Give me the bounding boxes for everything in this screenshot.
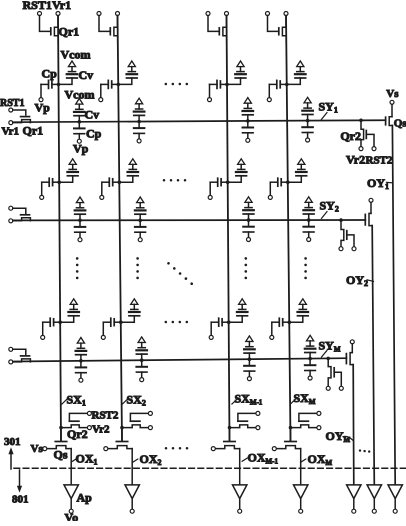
wire row line SY3 — [14, 358, 346, 361]
svg-text:Vp: Vp — [73, 142, 89, 156]
terminal Vp row1 pair — [77, 139, 81, 143]
svg-text:OY2: OY2 — [346, 273, 368, 288]
capacitor Cp cell col1 rowA — [41, 83, 48, 85]
svg-text:SX1: SX1 — [67, 393, 86, 408]
op-amp Ap col2 — [125, 485, 139, 499]
ellipsis col2 vertical — [136, 257, 139, 260]
svg-text:OX2: OX2 — [140, 452, 162, 467]
terminal Vs row2 — [369, 198, 373, 202]
transistor select row3 — [351, 344, 353, 353]
ellipsis rowB — [163, 179, 166, 182]
terminal Vs row3 — [350, 340, 354, 344]
capacitor Cp cell col2 rowC — [103, 321, 110, 323]
capacitor Cp cell col4 rowC — [272, 321, 279, 323]
wire gate reset row2 — [347, 235, 354, 247]
svg-text:RST2: RST2 — [366, 155, 393, 167]
capacitor Cv with Vcom arrow on row1 after col1 — [76, 99, 83, 105]
ellipsis diagonal — [167, 262, 170, 265]
capacitor Cv with Vcom arrow cell col3 rowB — [228, 176, 242, 182]
svg-text:Qs: Qs — [54, 448, 68, 462]
terminal Vp row2 pair — [78, 238, 82, 242]
capacitor Cv with Vcom arrow cell col1 rowC — [60, 316, 73, 322]
terminal Vr top col2 — [116, 12, 120, 16]
terminal Vs bottom col3 — [211, 447, 215, 451]
svg-text:Vs: Vs — [386, 88, 399, 100]
pointer OY1 — [387, 181, 393, 184]
node: row3 reset junction — [326, 357, 330, 361]
wire + terminal Vp cell col3 rowB — [209, 182, 211, 195]
wire column line 4 — [286, 14, 291, 442]
transistor left select row2 sel2 — [13, 208, 26, 213]
node: junction row1 pair — [306, 119, 310, 123]
ellipsis rowC — [165, 321, 168, 324]
wire row line SY2 — [13, 219, 365, 221]
transistor left select row3 sel3 — [13, 349, 26, 354]
terminal RST2 row1 — [372, 147, 376, 151]
transistor Qr1-col3 top col3 — [208, 16, 219, 32]
node: junction row1 pair — [137, 120, 141, 124]
capacitor Cp below row2 — [308, 220, 310, 227]
terminal gate left row3 sel3 — [9, 347, 13, 351]
capacitor Cv with Vcom arrow cell col4 rowA — [287, 78, 301, 84]
node: junction row3 pair — [79, 359, 83, 363]
terminal RST gate top col4 — [266, 12, 270, 16]
capacitor Cv with Vcom arrow on row1 after col2 — [136, 98, 143, 104]
svg-text:Qr2: Qr2 — [340, 129, 361, 143]
capacitor Cp cell col3 rowC — [211, 321, 218, 323]
svg-text:Cp: Cp — [86, 127, 102, 141]
svg-text:SXM-1: SXM-1 — [235, 392, 263, 407]
capacitor Cp below row1 — [247, 121, 249, 128]
node: cell junction col2 rowA — [117, 83, 121, 87]
op-amp Ap col4 — [294, 485, 308, 499]
svg-text:Qs: Qs — [394, 118, 406, 130]
terminal Vs bottom col1 — [43, 447, 47, 451]
node: cell junction col3 rowB — [226, 180, 230, 184]
capacitor Cp below row3 — [309, 359, 311, 366]
terminal source left row1 — [9, 121, 13, 125]
wire + terminal Vp cell col2 rowA — [100, 84, 102, 97]
capacitor Cv with Vcom arrow on row3 after col3 — [246, 336, 253, 342]
wire OY1 vertical — [392, 126, 395, 485]
terminal Vr2 row1 — [359, 147, 363, 151]
svg-text:Cv: Cv — [79, 68, 94, 82]
node: cell junction col1 rowA — [57, 83, 61, 87]
svg-text:OXM: OXM — [308, 452, 333, 467]
wire + terminal Vp cell col3 rowA — [209, 84, 211, 97]
wire + terminal Vp cell col2 rowB — [101, 182, 103, 195]
capacitor Cp cell col1 rowB — [42, 181, 49, 183]
node: cell junction col1 rowC — [58, 320, 62, 324]
svg-text:Vp: Vp — [35, 101, 51, 115]
capacitor Cv with Vcom arrow on row2 after col2 — [137, 197, 144, 203]
wire OY2 vertical — [372, 226, 374, 485]
wire column line 1 — [58, 14, 61, 442]
pointer SX1 — [62, 399, 67, 404]
op-amp Ap col1 — [64, 485, 78, 499]
ellipsis col3 vertical — [245, 257, 248, 260]
wire + terminal Vp cell col4 rowA — [268, 84, 270, 97]
svg-text:Vr1: Vr1 — [2, 126, 20, 138]
transistor Qs bottom col2 — [121, 428, 123, 441]
terminal RST2 bottom col1 — [87, 411, 91, 415]
terminal Vr2 bottom col4 — [317, 426, 321, 430]
terminal Vp row3 pair — [79, 378, 83, 382]
terminal Vp row2 pair — [247, 238, 251, 242]
transistor left select row1 Qr1 — [13, 110, 26, 115]
terminal Vs bottom col4 — [272, 447, 276, 451]
wire gate Qr2 row1 — [366, 134, 374, 146]
terminal Vs row1 — [390, 100, 394, 104]
svg-text:RST1: RST1 — [0, 98, 24, 109]
terminal Vp row1 pair — [306, 138, 310, 142]
terminal RST gate top col3 — [206, 12, 210, 16]
terminal Vp row3 pair — [247, 377, 251, 381]
wire OX output col3 — [239, 449, 241, 485]
transistor select row2 — [370, 202, 372, 213]
terminal Vr2 bottom col1 — [87, 426, 91, 430]
capacitor Cp below row3 — [141, 360, 143, 367]
capacitor Cv with Vcom arrow cell col1 rowA — [59, 78, 73, 84]
pointer OYM — [343, 436, 353, 440]
terminal Vr top col3 — [225, 12, 229, 16]
ellipsis col4 vertical — [304, 257, 307, 260]
node: junction row3 pair — [308, 357, 312, 361]
transistor reset row3 — [328, 358, 331, 386]
svg-text:SYM: SYM — [319, 338, 341, 353]
ellipsis OY outputs — [359, 449, 361, 451]
node: cell junction col4 rowC — [288, 320, 292, 324]
node: cell junction col2 rowB — [118, 180, 122, 184]
node: bottom junction col2 — [120, 426, 124, 430]
capacitor Cv with Vcom arrow on row2 after col3 — [245, 197, 252, 203]
transistor reset row2 — [341, 220, 344, 247]
wire dashed boundary 301/801 — [14, 467, 406, 469]
capacitor Cp below row1 — [78, 122, 80, 129]
wire column line 3 — [227, 14, 230, 442]
wire + terminal Vp cell col3 rowC — [210, 322, 212, 335]
capacitor Cv with Vcom arrow cell col4 rowC — [289, 316, 303, 322]
terminal gate left row1 Qr1 — [9, 108, 13, 112]
svg-text:Vo: Vo — [65, 510, 79, 521]
capacitor Cp below row2 — [248, 220, 250, 227]
svg-text:OXM-1: OXM-1 — [248, 451, 279, 466]
terminal RST2 bottom col2 — [148, 411, 152, 415]
svg-text:Vcom: Vcom — [61, 47, 91, 61]
transistor Qr2 bottom col3 — [230, 425, 256, 428]
op-amp OYM output — [347, 485, 361, 499]
capacitor Cv with Vcom arrow on row2 after col1 — [76, 197, 83, 203]
capacitor Cp below row2 — [139, 220, 141, 227]
svg-text:Vcom: Vcom — [65, 87, 95, 101]
svg-text:SXM: SXM — [294, 391, 316, 406]
transistor Qr1 top col1 — [40, 16, 51, 32]
801 arrow — [19, 470, 21, 486]
transistor Qr2 bottom col1 — [61, 425, 87, 428]
ellipsis bottom Qs row — [165, 447, 168, 450]
capacitor Cv with Vcom arrow on row2 after col4 — [305, 197, 312, 203]
wire + terminal Vp cell col1 rowA — [40, 84, 42, 97]
pointer SY2 — [322, 212, 328, 219]
terminal Vp row2 pair — [138, 238, 142, 242]
terminal Vr top col4 — [284, 12, 288, 16]
capacitor Cp below row3 — [80, 361, 82, 368]
node: junction row2 pair — [138, 219, 142, 223]
transistor Qr1-col4 top col4 — [268, 16, 279, 32]
capacitor Cp cell col3 rowA — [210, 83, 217, 85]
op-amp Ap col3 — [233, 485, 247, 499]
wire row line SY1 — [13, 120, 386, 122]
svg-text:Vr1: Vr1 — [52, 0, 71, 12]
wire + terminal Vp cell col2 rowC — [102, 322, 104, 335]
wire column line 2 — [118, 14, 123, 442]
wire + terminal Vp cell col4 rowC — [271, 322, 273, 335]
terminal Vs bottom col2 — [104, 447, 108, 451]
capacitor Cp below row3 — [248, 359, 250, 366]
svg-text:RST1: RST1 — [23, 0, 52, 12]
capacitor Cp below row2 — [79, 220, 81, 227]
capacitor Cp below row1 — [307, 121, 309, 128]
capacitor Cv with Vcom arrow on row3 after col1 — [77, 338, 84, 344]
capacitor Cv with Vcom arrow cell col2 rowB — [119, 176, 133, 182]
pointer SY1 — [322, 113, 328, 120]
terminal RST gate top col1 — [38, 12, 42, 16]
wire OYM vertical — [352, 365, 355, 485]
transistor Qs bottom col3 — [229, 428, 231, 441]
svg-text:Qr2: Qr2 — [67, 427, 88, 441]
capacitor Cp cell col4 rowA — [269, 83, 276, 85]
pointer SXM-1 — [232, 399, 237, 404]
wire OX output col1 — [70, 449, 72, 485]
svg-text:SY2: SY2 — [320, 199, 339, 214]
node: cell junction col3 rowA — [225, 83, 229, 87]
node: bottom junction col4 — [289, 426, 293, 430]
svg-text:801: 801 — [12, 494, 29, 506]
node: junction row2 pair — [307, 218, 311, 222]
terminal source left row2 — [9, 219, 13, 223]
capacitor Cv with Vcom arrow cell col3 rowA — [227, 78, 241, 84]
terminal RST2 row3 — [339, 386, 343, 390]
transistor Qs bottom col1 — [60, 428, 62, 441]
pointer OX1 — [72, 459, 77, 462]
transistor Qs bottom col4 — [290, 428, 292, 441]
terminal Vr top col1 — [56, 12, 60, 16]
terminal Vp row3 pair — [308, 376, 312, 380]
svg-text:Vs: Vs — [31, 443, 44, 455]
wire OX output col4 — [300, 449, 302, 485]
ellipsis rowA — [165, 83, 168, 86]
capacitor Cp cell col4 rowB — [270, 181, 277, 183]
transistor Qs row1 — [391, 104, 393, 116]
svg-text:301: 301 — [4, 436, 21, 448]
capacitor Cv with Vcom arrow on row1 after col4 — [304, 97, 311, 103]
node: junction row3 pair — [140, 358, 144, 362]
transistor Qr2 row1 — [361, 120, 364, 146]
node: row1 Qr2 junction — [359, 119, 363, 123]
pointer OXM-1 — [242, 458, 247, 461]
capacitor Cv with Vcom arrow cell col2 rowA — [118, 78, 132, 84]
capacitor Cv with Vcom arrow on row3 after col4 — [307, 335, 314, 341]
node: cell junction col2 rowC — [119, 320, 123, 324]
transistor Qr1-col2 top col2 — [99, 16, 110, 32]
terminal Vr2 row2 — [339, 247, 343, 251]
terminal RST2 row2 — [352, 247, 356, 251]
terminal Vr2 bottom col2 — [148, 426, 152, 430]
node: cell junction col4 rowA — [285, 83, 289, 87]
capacitor Cv with Vcom arrow cell col1 rowB — [59, 176, 72, 182]
pointer SYM — [322, 350, 328, 357]
node: cell junction col3 rowC — [227, 320, 231, 324]
svg-text:Vr2: Vr2 — [346, 153, 365, 167]
pointer OX2 — [133, 459, 138, 462]
op-amp OY1 output — [388, 485, 402, 499]
terminal Vr2 bottom col3 — [256, 426, 260, 430]
wire + terminal Vp cell col1 rowC — [42, 322, 44, 335]
terminal Vp row2 pair — [307, 238, 311, 242]
svg-text:OX1: OX1 — [76, 452, 98, 467]
capacitor Cv with Vcom arrow cell col3 rowC — [229, 316, 243, 322]
capacitor Cp cell col2 rowA — [101, 83, 108, 85]
terminal Vr2 row3 — [326, 386, 330, 390]
node: junction row3 pair — [248, 357, 252, 361]
capacitor Cp below row1 — [138, 122, 140, 129]
node: junction row1 pair — [246, 119, 250, 123]
wire OX output col2 — [131, 449, 133, 485]
terminal Vp row3 pair — [140, 378, 144, 382]
wire + terminal Vp cell col1 rowB — [41, 182, 43, 195]
capacitor Cv with Vcom arrow on row1 after col3 — [244, 98, 251, 104]
pointer SXM — [290, 399, 295, 404]
wire gate reset row3 — [334, 372, 341, 386]
node: bottom junction col1 — [59, 426, 63, 430]
op-amp OY2 output — [367, 485, 381, 499]
capacitor Cp cell col3 rowB — [210, 181, 217, 183]
node: row2 reset junction — [339, 218, 343, 222]
terminal RST2 bottom col4 — [317, 411, 321, 415]
pointer OY2 — [367, 280, 374, 282]
wire + terminal Vp cell col4 rowB — [269, 182, 271, 195]
svg-text:Qr1: Qr1 — [23, 124, 44, 138]
terminal Vp row1 pair — [137, 139, 141, 143]
svg-text:RST2: RST2 — [92, 410, 119, 422]
svg-text:Cp: Cp — [42, 67, 58, 81]
node: bottom junction col3 — [228, 426, 232, 430]
capacitor Cv with Vcom arrow cell col2 rowC — [121, 316, 135, 322]
ellipsis col1 vertical — [76, 257, 79, 260]
svg-text:Qr1: Qr1 — [59, 25, 80, 39]
capacitor Cp cell col2 rowB — [102, 181, 109, 183]
pointer SX2 — [122, 399, 127, 404]
svg-text:OYM: OYM — [326, 429, 351, 444]
node: cell junction col4 rowB — [286, 180, 290, 184]
301 arrow — [8, 447, 13, 454]
svg-text:SY1: SY1 — [319, 100, 338, 115]
terminal gate left row2 sel2 — [9, 206, 13, 210]
node: cell junction col1 rowB — [57, 180, 61, 184]
node: junction row2 pair — [247, 218, 251, 222]
transistor Qr2 bottom col4 — [291, 425, 317, 428]
svg-text:OY1: OY1 — [367, 176, 389, 191]
pointer OXM — [301, 459, 306, 462]
node: junction row1 pair — [78, 120, 82, 124]
terminal RST gate top col2 — [97, 12, 101, 16]
transistor Qr2 bottom col2 — [122, 425, 148, 428]
svg-text:Vr2: Vr2 — [92, 424, 110, 436]
terminal Vp row1 pair — [246, 138, 250, 142]
terminal RST2 bottom col3 — [256, 411, 260, 415]
terminal source left row3 — [9, 360, 13, 364]
svg-text:Cv: Cv — [85, 107, 100, 121]
capacitor Cv with Vcom arrow cell col4 rowB — [288, 176, 302, 182]
capacitor Cp cell col1 rowC — [43, 321, 50, 323]
capacitor Cv with Vcom arrow on row3 after col2 — [138, 337, 145, 343]
svg-text:SX2: SX2 — [127, 393, 146, 408]
svg-text:Ap: Ap — [77, 491, 93, 505]
node: junction row2 pair — [78, 219, 82, 223]
